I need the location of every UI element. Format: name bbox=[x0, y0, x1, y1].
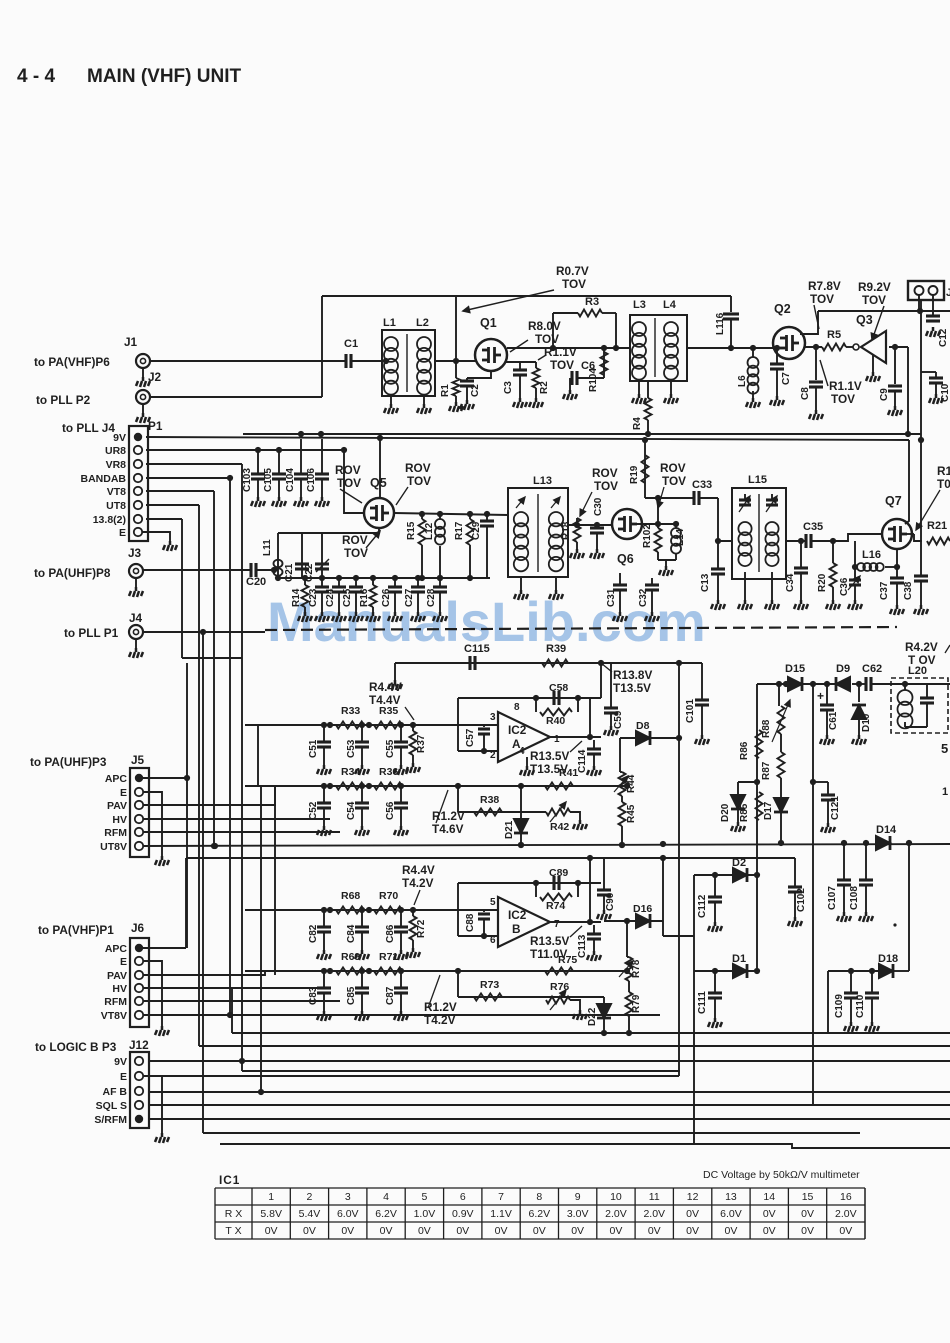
bus line AFB bbox=[148, 1091, 950, 1093]
svg-text:3: 3 bbox=[490, 712, 496, 723]
svg-text:6.2V: 6.2V bbox=[375, 1208, 397, 1220]
svg-text:J2: J2 bbox=[148, 370, 162, 384]
P1 pin VT8 bbox=[134, 487, 142, 495]
svg-text:R72: R72 bbox=[416, 919, 427, 938]
transformer L13 bbox=[508, 488, 568, 577]
svg-text:TOV: TOV bbox=[407, 474, 431, 488]
svg-text:C1: C1 bbox=[344, 338, 358, 350]
svg-text:D1: D1 bbox=[732, 953, 746, 965]
svg-text:+: + bbox=[817, 689, 824, 703]
svg-text:L11: L11 bbox=[262, 539, 273, 556]
svg-text:1.0V: 1.0V bbox=[414, 1208, 436, 1220]
J4 ground bbox=[135, 640, 137, 649]
svg-text:to PLL P2: to PLL P2 bbox=[36, 393, 91, 407]
svg-text:D17: D17 bbox=[763, 801, 774, 820]
L13 tuning arrows bbox=[516, 497, 525, 508]
svg-text:R70: R70 bbox=[379, 890, 398, 902]
svg-text:C25: C25 bbox=[342, 588, 353, 607]
svg-text:L6: L6 bbox=[737, 375, 748, 387]
svg-text:VT8: VT8 bbox=[107, 486, 126, 498]
svg-text:T4.4V: T4.4V bbox=[369, 693, 401, 707]
diode D1 bbox=[733, 964, 747, 978]
J5 pin E bbox=[135, 788, 143, 796]
transformer L3 L4 bbox=[630, 315, 687, 381]
diode D14 bbox=[876, 836, 890, 850]
resistor R85 bbox=[756, 792, 763, 820]
svg-text:APC: APC bbox=[105, 773, 128, 785]
svg-text:C106: C106 bbox=[306, 468, 317, 492]
svg-text:R9.2V: R9.2V bbox=[858, 280, 891, 294]
capacitor C58 bbox=[554, 691, 559, 705]
svg-text:R4.4V: R4.4V bbox=[369, 680, 402, 694]
L15 pin grounds bbox=[744, 572, 746, 600]
svg-text:T4.2V: T4.2V bbox=[402, 876, 434, 890]
capacitor C121 bbox=[813, 781, 828, 783]
capacitor C105 bbox=[278, 450, 280, 474]
bus line 9V bbox=[148, 1060, 950, 1062]
connector J2 to PLL P2 bbox=[136, 390, 150, 404]
svg-text:R44: R44 bbox=[626, 774, 637, 793]
J5 RFM wire bbox=[143, 831, 340, 833]
svg-text:T X: T X bbox=[225, 1225, 241, 1237]
bus jog 13.8 to VR8 column bbox=[182, 657, 242, 659]
J6 PAV wire bbox=[143, 971, 265, 975]
R73 wire bbox=[457, 971, 459, 997]
capacitor C57/C88 bbox=[483, 910, 485, 912]
output rail B bbox=[186, 857, 795, 859]
diode D15 bbox=[788, 677, 802, 691]
inductor L20 dashed box bbox=[891, 678, 948, 733]
svg-text:to PA(VHF)P1: to PA(VHF)P1 bbox=[38, 923, 114, 937]
svg-text:Q5: Q5 bbox=[370, 476, 387, 490]
wire D9 to C62 bbox=[852, 683, 866, 685]
svg-text:R73: R73 bbox=[480, 979, 499, 991]
inductor L12 bbox=[439, 514, 441, 519]
inverter Q3 bbox=[846, 346, 853, 348]
svg-text:0V: 0V bbox=[303, 1225, 316, 1237]
svg-text:R76: R76 bbox=[550, 981, 569, 993]
wire L4 to Q2 bbox=[687, 347, 773, 349]
capacitor C26 bbox=[394, 578, 396, 587]
connector J4 to PLL P1 bbox=[129, 625, 143, 639]
vertical x757 lower bbox=[756, 875, 758, 971]
svg-text:ROV: ROV bbox=[660, 461, 686, 475]
capacitor C113 bbox=[593, 925, 595, 934]
capacitor C27 bbox=[417, 578, 419, 587]
connector pin1 drop bbox=[918, 295, 920, 311]
J6 pin RFM bbox=[135, 997, 143, 1005]
svg-text:C113: C113 bbox=[577, 934, 588, 958]
svg-text:14: 14 bbox=[763, 1191, 775, 1203]
svg-text:C13: C13 bbox=[700, 573, 711, 592]
svg-text:S/RFM: S/RFM bbox=[94, 1114, 127, 1126]
svg-text:0V: 0V bbox=[763, 1208, 776, 1220]
L20 capacitor bbox=[902, 681, 908, 687]
capacitor C59 bbox=[610, 663, 612, 708]
svg-text:13: 13 bbox=[725, 1191, 737, 1203]
Q6 output node bbox=[637, 523, 658, 525]
svg-text:R X: R X bbox=[225, 1208, 243, 1220]
J12 pin E bbox=[135, 1072, 143, 1080]
svg-text:R4.4V: R4.4V bbox=[402, 863, 435, 877]
svg-text:L20: L20 bbox=[908, 665, 927, 677]
bus line y1033 bbox=[232, 1032, 950, 1034]
svg-text:to LOGIC B P3: to LOGIC B P3 bbox=[35, 1040, 117, 1054]
capacitor C54 bbox=[361, 786, 363, 803]
svg-text:0V: 0V bbox=[725, 1225, 738, 1237]
resistor R33 bbox=[336, 722, 364, 729]
op-amp IC2 A bbox=[498, 712, 550, 762]
svg-text:0V: 0V bbox=[495, 1225, 508, 1237]
svg-text:L3: L3 bbox=[633, 299, 646, 311]
capacitor C3 bbox=[519, 362, 521, 370]
capacitor C57/C88 bbox=[483, 725, 485, 727]
wire J1 to C1 bbox=[150, 360, 346, 362]
wire D15 to D9 bbox=[802, 683, 838, 685]
diode D10 bbox=[858, 684, 860, 702]
svg-text:R78: R78 bbox=[631, 959, 642, 978]
svg-text:6.0V: 6.0V bbox=[337, 1208, 359, 1220]
svg-text:J6: J6 bbox=[131, 921, 145, 935]
capacitor C108 bbox=[865, 843, 867, 880]
svg-text:0V: 0V bbox=[610, 1225, 623, 1237]
ground at J1 bbox=[142, 369, 144, 378]
svg-text:R19: R19 bbox=[629, 465, 640, 484]
svg-text:P1: P1 bbox=[148, 419, 163, 433]
bus line S/RFM bbox=[148, 1118, 950, 1120]
capacitor C37 bbox=[896, 567, 898, 578]
right vertical C38 branch bbox=[920, 434, 922, 576]
capacitor C35 bbox=[806, 534, 811, 548]
diode D16 bbox=[636, 914, 650, 928]
diode D20 zener bbox=[738, 781, 757, 783]
inductor L6 bbox=[752, 348, 754, 357]
svg-text:C102: C102 bbox=[796, 888, 807, 912]
resistor R41 bbox=[545, 783, 573, 790]
svg-text:C27: C27 bbox=[404, 588, 415, 607]
capacitor C9 bbox=[894, 347, 896, 384]
svg-text:6.2V: 6.2V bbox=[529, 1208, 551, 1220]
Q5 output wire bbox=[394, 513, 508, 515]
svg-text:Q1: Q1 bbox=[480, 316, 497, 330]
capacitor C24 bbox=[338, 578, 340, 587]
diode D2 bbox=[733, 868, 747, 882]
B feedback to output rail bbox=[589, 858, 591, 883]
resistor R39 bbox=[542, 660, 568, 667]
svg-text:3.0V: 3.0V bbox=[567, 1208, 589, 1220]
capacitor C2 bbox=[466, 378, 468, 381]
J12 pin SQL S bbox=[135, 1101, 143, 1109]
svg-text:C83: C83 bbox=[308, 986, 319, 1005]
capacitor C1 bbox=[346, 354, 351, 368]
svg-text:9V: 9V bbox=[114, 1056, 127, 1068]
svg-text:R88: R88 bbox=[761, 719, 772, 738]
P1 UT8 wire bbox=[146, 504, 199, 506]
bus line SQLS bbox=[148, 1104, 950, 1106]
P1 pin UR8 bbox=[134, 446, 142, 454]
C115 ground stub bbox=[394, 663, 396, 680]
svg-text:L2: L2 bbox=[416, 317, 429, 329]
capacitor C109 bbox=[850, 971, 852, 993]
wire L2 to Q1 gate bbox=[435, 360, 476, 362]
diode D8 bbox=[636, 731, 650, 745]
svg-text:R17: R17 bbox=[454, 521, 465, 540]
svg-text:0V: 0V bbox=[265, 1225, 278, 1237]
svg-text:5: 5 bbox=[421, 1191, 427, 1203]
svg-text:MAIN (VHF) UNIT: MAIN (VHF) UNIT bbox=[87, 66, 241, 87]
svg-text:C31: C31 bbox=[606, 588, 617, 607]
D2 wire bbox=[694, 874, 757, 876]
wire Q1 drain to L3 bbox=[507, 347, 630, 349]
diode D17 bbox=[780, 778, 782, 797]
capacitor C83 bbox=[323, 971, 325, 988]
svg-text:E: E bbox=[120, 1071, 127, 1083]
feedback vertical bbox=[589, 698, 591, 737]
J5 HV wire bbox=[143, 818, 330, 820]
capacitor C36 variable bbox=[854, 567, 856, 580]
svg-text:C51: C51 bbox=[308, 739, 319, 758]
svg-text:R1: R1 bbox=[440, 384, 451, 397]
svg-text:L14: L14 bbox=[675, 528, 686, 546]
L2 ground bbox=[423, 396, 425, 404]
svg-text:2.0V: 2.0V bbox=[835, 1208, 857, 1220]
svg-text:R39: R39 bbox=[546, 643, 566, 655]
svg-text:D15: D15 bbox=[785, 663, 805, 675]
Q6 drain riser and R19 bbox=[644, 440, 646, 498]
J6 RFM wire bbox=[143, 1000, 340, 1002]
svg-text:7: 7 bbox=[554, 919, 560, 930]
svg-text:UT8V: UT8V bbox=[100, 841, 127, 853]
svg-text:C104: C104 bbox=[285, 468, 296, 492]
capacitor C13 bbox=[717, 541, 719, 569]
UR8 wire bbox=[146, 449, 344, 451]
diode D21 bbox=[520, 785, 522, 818]
transformer L15 bbox=[732, 488, 786, 579]
capacitor C23 bbox=[321, 578, 323, 587]
svg-text:HV: HV bbox=[112, 983, 127, 995]
svg-text:0.9V: 0.9V bbox=[452, 1208, 474, 1220]
D18 wire bbox=[827, 971, 829, 1033]
wire L15 to C35 bbox=[786, 540, 806, 542]
svg-text:TOV: TOV bbox=[831, 392, 855, 406]
svg-text:R18: R18 bbox=[561, 521, 572, 540]
wire Q3 output to right vertical bbox=[907, 347, 909, 434]
wire L13 to Q6 bbox=[568, 524, 612, 526]
L3 ground bbox=[638, 381, 640, 394]
svg-text:T13.5V: T13.5V bbox=[613, 681, 651, 695]
svg-text:C36: C36 bbox=[839, 577, 850, 596]
svg-text:TOV: TOV bbox=[862, 293, 886, 307]
svg-text:C33: C33 bbox=[692, 479, 712, 491]
svg-text:16: 16 bbox=[840, 1191, 852, 1203]
svg-text:R13.5V: R13.5V bbox=[530, 934, 569, 948]
P1 pin BANDAB bbox=[134, 474, 142, 482]
svg-text:IC2: IC2 bbox=[508, 723, 527, 737]
svg-text:0V: 0V bbox=[533, 1225, 546, 1237]
svg-text:Q7: Q7 bbox=[885, 494, 902, 508]
svg-text:TOV: TOV bbox=[535, 332, 559, 346]
svg-text:1: 1 bbox=[554, 734, 560, 745]
svg-text:PAV: PAV bbox=[107, 800, 127, 812]
svg-text:R87: R87 bbox=[761, 761, 772, 780]
svg-text:8: 8 bbox=[514, 702, 520, 713]
P1 pin E bbox=[134, 528, 142, 536]
P1 BANDAB wire bbox=[146, 477, 230, 479]
capacitor C101 bbox=[695, 700, 709, 705]
svg-text:C108: C108 bbox=[849, 886, 860, 910]
svg-text:C29: C29 bbox=[471, 521, 482, 540]
right vertical from 9V rail corner to Q7 bbox=[905, 440, 909, 524]
label R13.8V T13.5V bbox=[601, 663, 612, 672]
svg-text:J1: J1 bbox=[124, 335, 138, 349]
resistor R17 bbox=[469, 514, 471, 519]
svg-text:C88: C88 bbox=[465, 913, 476, 932]
capacitor C7 bbox=[776, 348, 778, 363]
svg-text:VR8: VR8 bbox=[106, 459, 127, 471]
svg-text:ROV: ROV bbox=[342, 533, 368, 547]
Q1 source stub bbox=[467, 371, 491, 378]
Q2 gate bend to rail bbox=[800, 311, 818, 334]
svg-text:C89: C89 bbox=[549, 867, 568, 879]
wire upper input A bbox=[245, 724, 498, 726]
svg-text:R1: R1 bbox=[937, 464, 950, 478]
watermark ManualsLib.com bbox=[267, 589, 706, 654]
capacitor C52 bbox=[323, 786, 325, 803]
capacitor C32 bbox=[651, 578, 653, 585]
wire J2 to riser bbox=[150, 396, 322, 398]
wire B rail to C102 bbox=[794, 858, 796, 887]
J5 pin RFM bbox=[135, 828, 143, 836]
svg-text:R4: R4 bbox=[632, 417, 643, 430]
capacitor C103 bbox=[257, 450, 259, 474]
svg-text:R13.8V: R13.8V bbox=[613, 668, 652, 682]
capacitor C8 bbox=[815, 347, 817, 380]
J3 ground bbox=[135, 579, 137, 588]
vertical x679 from rail to B rail bbox=[678, 663, 680, 858]
P1 E ground bbox=[142, 532, 170, 541]
P1 VR8 wire bbox=[146, 463, 242, 465]
L4 ground bbox=[670, 381, 672, 394]
bus vertical 13.8 line bbox=[181, 519, 183, 658]
svg-text:D14: D14 bbox=[876, 824, 897, 836]
J6 pin APC bbox=[135, 944, 143, 952]
P1 pin 13.8(2) bbox=[134, 515, 142, 523]
svg-text:C9: C9 bbox=[879, 388, 890, 401]
wire J4 to bus bbox=[143, 631, 265, 633]
L13 grounds bbox=[520, 577, 522, 590]
svg-text:R0.7V: R0.7V bbox=[556, 264, 589, 278]
svg-text:C61: C61 bbox=[828, 711, 839, 730]
resistor R69 bbox=[336, 968, 364, 975]
svg-text:C28: C28 bbox=[426, 588, 437, 607]
J12 pin S/RFM bbox=[135, 1115, 143, 1123]
svg-text:BANDAB: BANDAB bbox=[81, 473, 127, 485]
svg-text:0V: 0V bbox=[571, 1225, 584, 1237]
inductor L14 bbox=[675, 524, 677, 528]
svg-text:13.8(2): 13.8(2) bbox=[93, 514, 126, 526]
svg-text:R41: R41 bbox=[559, 767, 578, 779]
inverting input wire bbox=[458, 750, 498, 752]
capacitor C62 bbox=[866, 677, 871, 691]
capacitor C82 bbox=[323, 910, 325, 927]
output wire bbox=[550, 921, 601, 923]
svg-text:T4.6V: T4.6V bbox=[432, 822, 464, 836]
svg-text:L13: L13 bbox=[533, 475, 552, 487]
J6 HV wire bbox=[143, 987, 330, 989]
resistor R70 bbox=[374, 907, 402, 914]
J5 pin UT8V bbox=[135, 842, 143, 850]
svg-text:J12: J12 bbox=[129, 1038, 149, 1052]
svg-text:12: 12 bbox=[687, 1191, 699, 1203]
svg-text:RFM: RFM bbox=[104, 827, 127, 839]
J5 pin PAV bbox=[135, 801, 143, 809]
svg-text:4: 4 bbox=[519, 746, 525, 757]
P1 13.8 wire bbox=[146, 518, 182, 520]
diode D22 bbox=[603, 997, 605, 1003]
wire C20 to L11 bbox=[256, 569, 278, 571]
svg-text:2: 2 bbox=[307, 1191, 313, 1203]
J12 E ground bbox=[143, 1076, 162, 1133]
resistor R16 bbox=[372, 578, 374, 585]
capacitor C30 bbox=[596, 525, 598, 528]
capacitor C115 bbox=[470, 656, 475, 670]
transistor Q5 bbox=[364, 498, 394, 528]
R102 L14 lower tie bbox=[658, 559, 676, 561]
resistor R18 bbox=[576, 518, 578, 525]
capacitor C53 bbox=[361, 725, 363, 742]
inverting input wire bbox=[458, 935, 498, 937]
svg-text:L12: L12 bbox=[424, 522, 435, 540]
svg-text:5: 5 bbox=[941, 741, 948, 756]
svg-text:8: 8 bbox=[536, 1191, 542, 1203]
R78 R79 chain bbox=[626, 921, 628, 957]
svg-text:5.4V: 5.4V bbox=[299, 1208, 321, 1220]
P1 pin VR8 bbox=[134, 460, 142, 468]
svg-text:D16: D16 bbox=[633, 903, 652, 915]
svg-text:Q3: Q3 bbox=[856, 313, 873, 327]
svg-text:D20: D20 bbox=[720, 803, 731, 822]
svg-text:C111: C111 bbox=[697, 991, 708, 1014]
svg-text:C2: C2 bbox=[470, 384, 481, 397]
wire D18 to x909 bbox=[893, 970, 909, 972]
vertical x757 R86 chain bbox=[756, 684, 758, 875]
rail to top-right connector bbox=[818, 310, 950, 312]
svg-text:IC2: IC2 bbox=[508, 908, 527, 922]
svg-text:C21: C21 bbox=[284, 563, 295, 582]
svg-text:R68: R68 bbox=[341, 890, 360, 902]
9V top rail bbox=[322, 295, 731, 297]
vertical from 9V rail to Q1 gate node bbox=[455, 296, 457, 361]
svg-text:C38: C38 bbox=[903, 581, 914, 600]
capacitor C87 bbox=[400, 971, 402, 988]
Q5 lower rail bbox=[278, 577, 490, 579]
small mark bbox=[893, 923, 896, 926]
riser from J6 APC bbox=[185, 858, 187, 948]
resistor R76 variable bbox=[546, 997, 570, 1004]
capacitor C84 bbox=[361, 910, 363, 927]
resistor R36 bbox=[374, 783, 402, 790]
capacitor C34 bbox=[800, 541, 802, 568]
svg-text:R74: R74 bbox=[546, 900, 565, 912]
svg-text:TOV: TOV bbox=[337, 476, 361, 490]
capacitor C6 bbox=[572, 371, 577, 385]
connector pin2 ground bbox=[932, 295, 934, 315]
inductor L16 bbox=[854, 541, 856, 567]
wire J3 to C20 bbox=[143, 569, 251, 571]
svg-text:C105: C105 bbox=[263, 468, 274, 492]
capacitor C10 bbox=[920, 300, 922, 434]
svg-text:TOV: TOV bbox=[344, 546, 368, 560]
